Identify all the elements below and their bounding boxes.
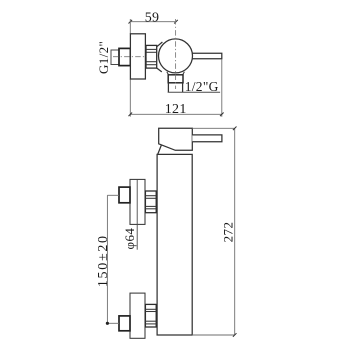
handle bar (front view)	[192, 135, 222, 142]
vertical centerline through sphere	[175, 19, 177, 89]
supply block (top view)	[119, 48, 130, 65]
dimension 121 tick left	[129, 113, 133, 117]
upper union nut ring lines	[145, 196, 156, 209]
svg-text:φ64: φ64	[122, 228, 137, 250]
outlet threaded tip (top view)	[168, 83, 182, 93]
svg-text:59: 59	[145, 11, 159, 26]
extension line right of 121 (handle end)	[221, 60, 223, 117]
dimension 59 tick left	[129, 20, 133, 24]
threaded nut (top view)	[146, 45, 157, 68]
svg-text:150±20: 150±20	[96, 234, 111, 287]
nut ring lines (top view)	[146, 49, 157, 64]
lower supply block	[119, 316, 130, 331]
upper wall flange (front view)	[130, 179, 145, 224]
extension line left (flange bottom to 121 dim)	[129, 79, 131, 117]
extension line from cap top to 272 dim	[192, 127, 234, 129]
dimension 272 tick top	[233, 127, 237, 131]
dimension 272 tick bottom	[233, 333, 237, 337]
leader underline for 1/2"G	[168, 91, 220, 93]
extension line from body bottom to 272 dim	[192, 334, 235, 336]
mixer body (front view)	[157, 154, 192, 335]
lower wall flange (front view)	[130, 293, 145, 338]
dimension 150±20 line	[106, 195, 108, 323]
dimension 150±20 leader top	[107, 194, 119, 196]
upper supply block	[119, 187, 130, 203]
svg-text:1/2"G: 1/2"G	[185, 79, 219, 94]
svg-text:G1/2": G1/2"	[96, 41, 111, 74]
extension line left of 59 (above flange)	[129, 19, 131, 34]
horizontal centerline through supply (top view)	[113, 56, 147, 58]
outlet connect fillet right (top view)	[183, 72, 185, 75]
dimension 121 line	[130, 113, 222, 115]
neck left slant	[158, 145, 162, 154]
upper union nut	[145, 191, 156, 213]
dimension 121 tick right	[220, 113, 224, 117]
wall flange (top view)	[130, 34, 145, 79]
pipe stub (top view)	[111, 50, 119, 65]
dimension 150±20 leader bottom	[107, 322, 119, 324]
taper cone top	[157, 42, 163, 47]
lower union nut ring lines	[145, 309, 156, 324]
taper cone bottom	[157, 68, 162, 72]
handle bar (top view)	[192, 53, 222, 59]
phi64 leader line through upper flange	[136, 179, 138, 249]
dimension 150±20 arrow dot	[106, 322, 109, 325]
lever cap (front view)	[159, 128, 193, 150]
dimension 59 line	[130, 21, 176, 23]
dimension 272 line	[234, 128, 236, 335]
outlet upper collar (top view)	[168, 75, 183, 83]
dimension 59 tick right	[174, 20, 178, 24]
lower union nut	[145, 304, 156, 327]
svg-text:121: 121	[165, 102, 187, 117]
svg-text:272: 272	[221, 222, 236, 243]
outlet connect fillet left (top view)	[167, 72, 169, 75]
valve body sphere (top view)	[159, 39, 193, 73]
